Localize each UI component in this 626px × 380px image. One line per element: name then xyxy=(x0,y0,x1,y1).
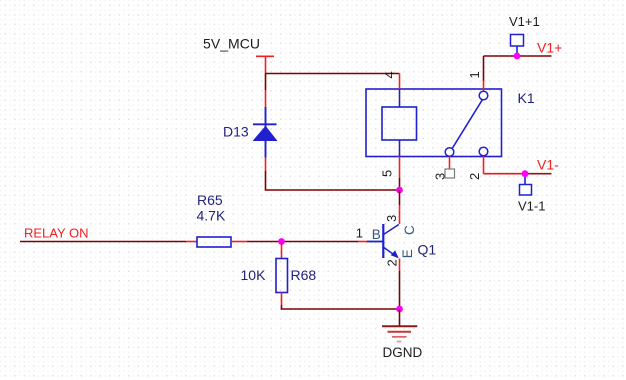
svg-text:Q1: Q1 xyxy=(418,242,437,258)
diode D13 xyxy=(253,107,278,158)
connector V1-1 square xyxy=(520,185,532,196)
svg-text:5: 5 xyxy=(380,170,395,177)
wire collector to junction xyxy=(399,190,401,205)
wire 5V_MCU to relay pin 4 xyxy=(266,73,400,75)
pin 3 terminal square xyxy=(445,169,455,178)
svg-text:2: 2 xyxy=(467,173,482,180)
transistor Q1 collector lead xyxy=(384,225,399,235)
svg-text:R68: R68 xyxy=(291,267,317,283)
diode D13 anode pin xyxy=(265,158,267,172)
resistor R65 xyxy=(197,237,231,247)
resistor R68 xyxy=(276,259,288,293)
resistor R65 pin 2 xyxy=(231,241,247,243)
diode D13 cathode pin xyxy=(265,90,267,108)
junction base node xyxy=(278,238,285,245)
relay pin 5 xyxy=(399,157,401,179)
svg-text:V1+: V1+ xyxy=(537,40,562,56)
wire V1- horizontal xyxy=(484,173,552,175)
wire diode anode to node at relay pin5 xyxy=(266,171,400,190)
wire RELAYON to R65 xyxy=(20,241,186,243)
svg-text:1: 1 xyxy=(467,71,482,78)
transistor Q1 emitter lead with arrow xyxy=(383,247,399,258)
junction emitter-ground node xyxy=(396,306,403,313)
wire relay pin5 to junction xyxy=(399,178,401,190)
svg-text:4.7K: 4.7K xyxy=(197,208,226,224)
svg-text:2: 2 xyxy=(385,259,400,266)
svg-text:V1-1: V1-1 xyxy=(518,199,545,214)
connector V1+1 square xyxy=(511,35,524,47)
ground DGND symbol xyxy=(382,326,417,341)
wire node to ground xyxy=(399,309,401,326)
svg-text:5V_MCU: 5V_MCU xyxy=(203,36,260,52)
transistor Q1 base bar xyxy=(382,224,384,258)
resistor R68 pin 2 xyxy=(281,293,283,306)
svg-text:1: 1 xyxy=(356,226,363,241)
svg-text:C: C xyxy=(402,225,417,235)
resistor R68 pin 1 xyxy=(281,242,283,259)
connector V1-1 stub xyxy=(524,174,526,185)
relay coil leads xyxy=(399,89,401,157)
relay switch arm xyxy=(453,100,483,149)
svg-text:3: 3 xyxy=(384,215,399,222)
svg-text:V1-: V1- xyxy=(537,157,559,173)
relay contact pin2 circle xyxy=(479,147,488,156)
svg-text:DGND: DGND xyxy=(383,345,423,360)
wire R65 to transistor base xyxy=(247,241,358,243)
connector V1+1 stub xyxy=(516,46,518,56)
transistor base pin red xyxy=(358,241,367,243)
svg-text:10K: 10K xyxy=(241,267,267,283)
wire R68 to emitter node xyxy=(282,305,400,309)
svg-text:R65: R65 xyxy=(197,192,223,208)
svg-text:B: B xyxy=(372,227,381,242)
relay pin 4 xyxy=(399,74,401,90)
svg-text:RELAY ON: RELAY ON xyxy=(24,226,89,241)
wire 5V_MCU down to diode xyxy=(265,74,267,91)
svg-text:D13: D13 xyxy=(223,124,249,140)
junction V1+ xyxy=(514,53,521,60)
wire emitter to ground node xyxy=(399,271,401,309)
relay pin 2 xyxy=(483,156,485,174)
svg-text:V1+1: V1+1 xyxy=(509,14,540,29)
svg-text:K1: K1 xyxy=(518,90,535,106)
relay pin 1 xyxy=(483,80,485,92)
transistor Q1 base lead xyxy=(367,241,383,243)
relay K1 body xyxy=(366,89,502,157)
relay contact pin3 circle xyxy=(445,148,454,157)
junction V1- xyxy=(522,170,529,177)
relay K1 coil xyxy=(382,107,417,140)
transistor emitter pin xyxy=(399,259,401,272)
svg-text:4: 4 xyxy=(382,71,397,78)
resistor R65 pin 1 xyxy=(186,241,197,243)
relay contact pin1 circle xyxy=(479,91,488,100)
relay pin 3 xyxy=(449,157,451,170)
svg-text:E: E xyxy=(400,249,415,258)
transistor collector pin xyxy=(399,205,401,224)
power bar symbol 5V_MCU xyxy=(256,56,274,74)
wire V1+ horizontal xyxy=(484,55,552,57)
wire V1+ down to relay pin 1 xyxy=(483,56,485,81)
junction node collector xyxy=(396,187,403,194)
